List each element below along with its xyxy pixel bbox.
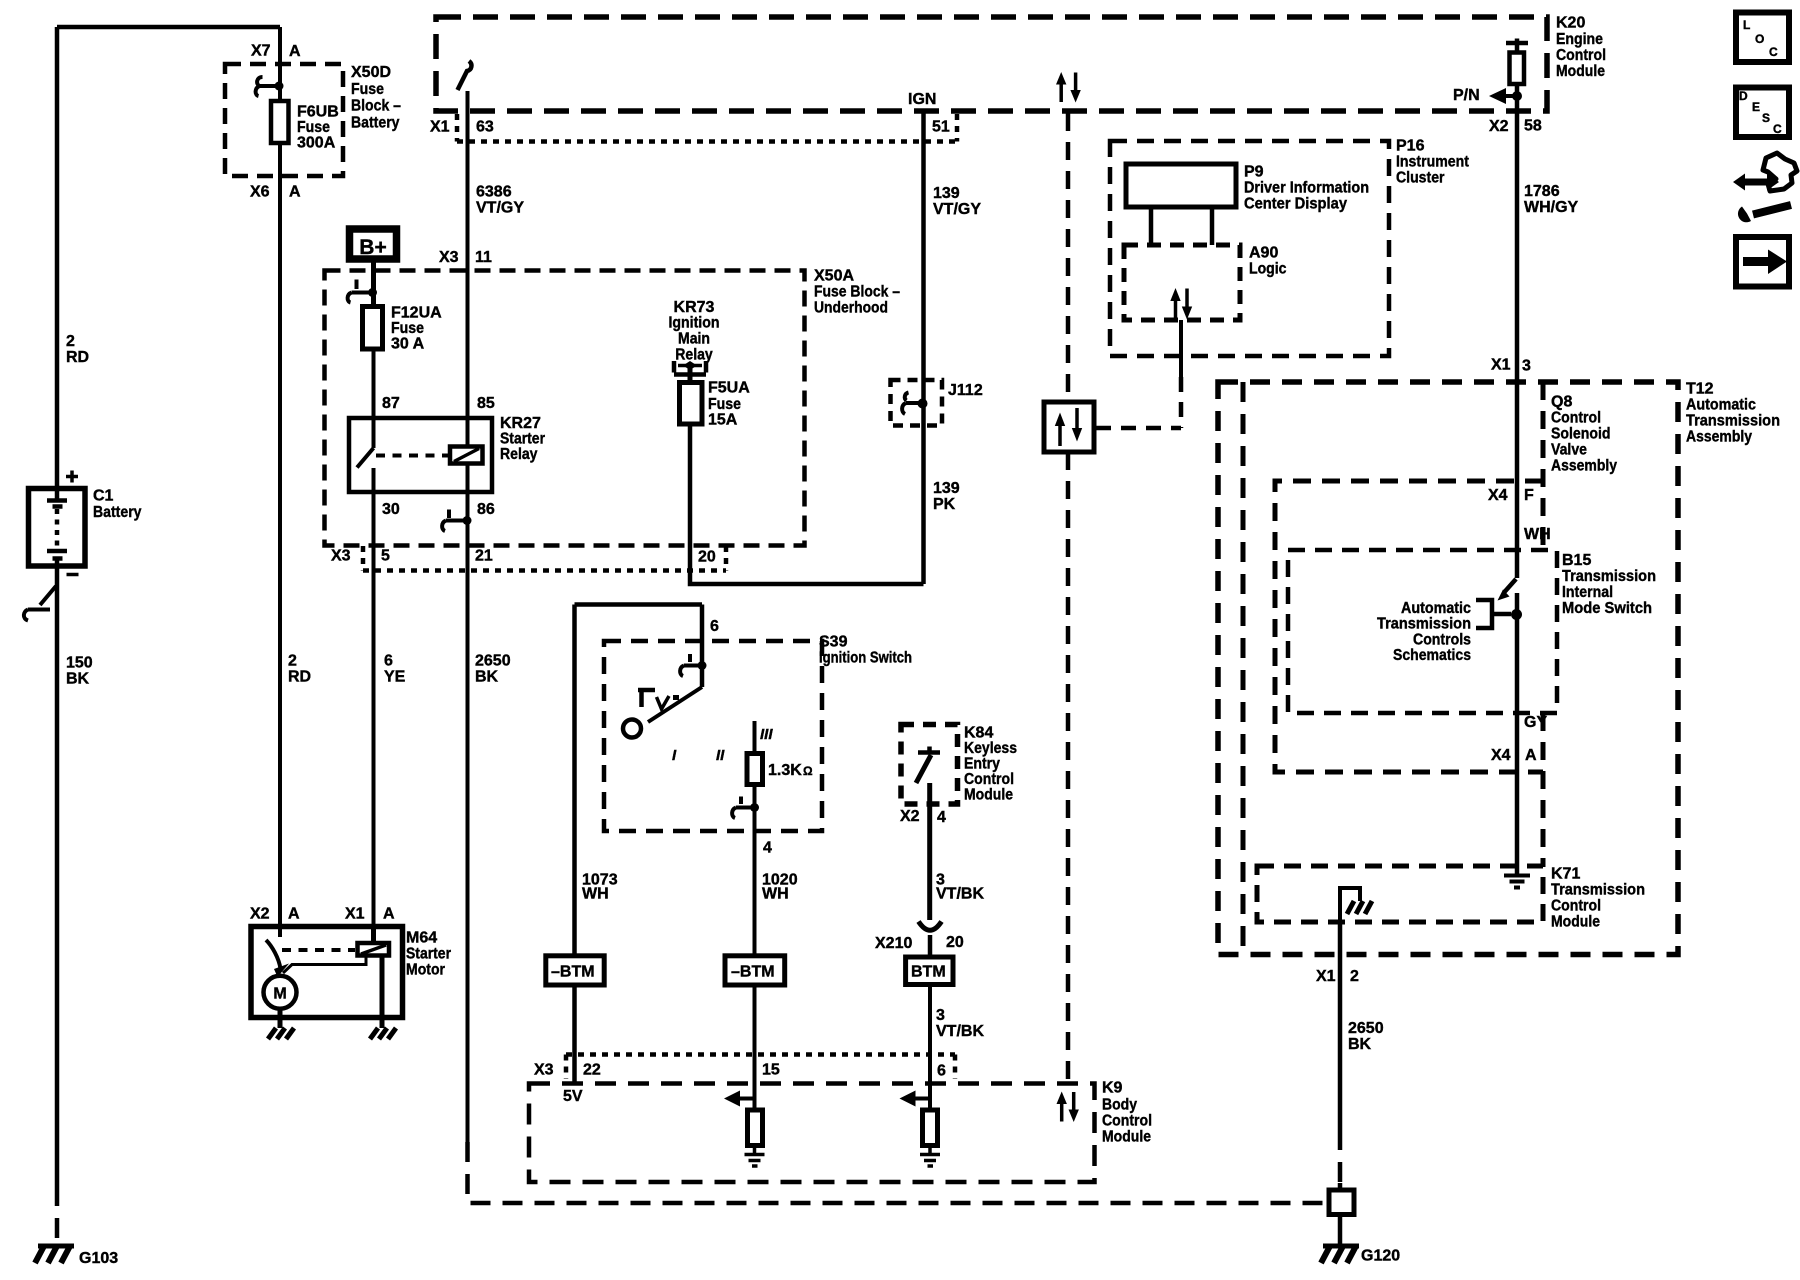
svg-text:M64: M64 [406,930,437,947]
svg-text:3: 3 [1522,358,1531,375]
label 3 VT/BK (lower) [936,1007,984,1040]
fuse block X50A dashed box [325,271,805,546]
svg-text:Engine: Engine [1556,31,1603,48]
svg-text:Q8: Q8 [1551,394,1572,411]
mode switch B15 wiper [1498,550,1518,601]
svg-text:Relay: Relay [500,446,538,463]
label 3 VT/BK [936,872,984,903]
label F6UB Fuse 300A [297,104,339,152]
starter M64 actuation dashed link [282,948,355,952]
label 139 PK [933,480,960,513]
wire ECM resistor to P/N node [1515,84,1520,111]
svg-text:Starter: Starter [406,946,451,963]
ground G103 [35,1246,118,1267]
svg-text:X7: X7 [251,43,271,60]
svg-text:KR73: KR73 [674,299,715,316]
svg-text:Fuse: Fuse [351,81,384,98]
label X50D Fuse Block - Battery [351,64,401,132]
svg-text:139: 139 [933,185,960,202]
label 2650 BK (TCM side) [1348,1020,1384,1053]
svg-text:Entry: Entry [964,756,1000,773]
solenoid valve assembly Q8 dashed edges [1275,382,1543,866]
svg-text:K20: K20 [1556,15,1585,32]
svg-text:Transmission: Transmission [1686,413,1780,430]
label X1 2 (TCM pins) [1316,968,1359,985]
label K71 Transmission Control Module [1551,866,1645,931]
label 6 YE [384,653,406,686]
svg-text:4: 4 [937,809,946,826]
svg-text:A: A [1525,747,1537,764]
svg-text:Valve: Valve [1551,442,1587,459]
connector hook at ignition switch pin 4 [732,797,759,819]
wire dashed to G103 [55,1186,60,1242]
wire ignition switch feed horizontal [575,602,703,607]
svg-text:Module: Module [1556,63,1605,80]
svg-text:S: S [1762,111,1770,125]
svg-text:150: 150 [66,655,93,672]
svg-text:Body: Body [1102,1097,1137,1114]
icon box arrow [1736,237,1789,287]
terminal box BTM (keyless circuit) [906,957,953,985]
label S39 Ignition Switch [819,634,912,667]
wire B+ stub [371,263,376,307]
ground symbol inside K71 [1504,876,1530,888]
svg-text:PK: PK [933,496,956,513]
serial data gateway box [1044,402,1094,452]
relay KR27 box [349,418,492,492]
svg-text:WH: WH [1524,526,1551,543]
svg-text:58: 58 [1524,118,1542,135]
svg-text:M: M [273,986,286,1003]
label K20 Engine Control Module [1556,15,1606,81]
wire A90 serial drop [1179,320,1183,377]
svg-text:GY: GY [1524,714,1547,731]
svg-text:4: 4 [763,840,772,857]
svg-text:Transmission: Transmission [1551,882,1645,899]
svg-text:Automatic: Automatic [1686,397,1756,414]
icon box DESC [1736,88,1789,138]
svg-text:T12: T12 [1686,381,1714,398]
label 6386 VT/GY [476,184,524,217]
svg-text:Assembly: Assembly [1686,429,1752,446]
wire ignition resistor branch [753,721,757,754]
label F12UA Fuse 30 A [391,305,442,353]
svg-text:6: 6 [710,618,719,635]
svg-text:X1: X1 [1316,968,1336,985]
svg-text:30 A: 30 A [391,336,425,353]
svg-text:Fuse Block –: Fuse Block – [814,284,900,301]
svg-text:Ignition Switch: Ignition Switch [819,650,912,667]
svg-text:Underhood: Underhood [814,300,888,317]
ignition switch position dash [673,695,679,700]
svg-text:X50A: X50A [814,268,854,285]
label X2 4 (K84 pins) [900,808,946,826]
svg-text:III: III [760,726,773,743]
svg-text:Instrument: Instrument [1396,154,1470,171]
ignition switch S39 contact v mark [657,696,670,709]
label 2650 BK [475,653,511,686]
wire top-left horizontal from battery feed to X7 [57,25,280,30]
terminal box -BTM (1073 circuit) [546,956,604,985]
svg-text:22: 22 [583,1062,601,1079]
inline connector X210 [919,922,942,931]
svg-text:C: C [1769,45,1778,59]
svg-text:X1: X1 [430,119,450,136]
wire keyless into BCM [928,985,932,1111]
label X1 3 (transmission connector) [1491,357,1531,375]
svg-text:3: 3 [936,1007,945,1024]
svg-text:X3: X3 [439,249,459,266]
label X210 20 [875,934,964,952]
ignition switch S39 fixed contact [638,690,655,707]
svg-text:X6: X6 [250,184,270,201]
svg-text:X50D: X50D [351,64,391,81]
svg-text:G103: G103 [79,1250,118,1267]
wire 139 from fuse F5UA down and right [690,424,924,584]
svg-text:63: 63 [476,119,494,136]
label 150 BK [66,655,93,688]
svg-text:O: O [1755,32,1764,46]
svg-text:Starter: Starter [500,431,545,448]
wire battery negative down [55,566,60,1186]
svg-text:X2: X2 [1489,118,1509,135]
label K84 Keyless Entry Control Module [964,725,1017,804]
svg-text:Internal: Internal [1562,584,1613,601]
starter M64 solenoid ground leg [380,956,385,1029]
svg-text:A: A [288,906,300,923]
svg-text:A: A [289,43,301,60]
svg-text:VT/BK: VT/BK [936,1023,984,1040]
resistor 1.3K in ignition switch [747,754,763,785]
svg-text:X4: X4 [1491,747,1511,764]
label P9 Driver Information Center Display [1244,164,1369,213]
svg-text:Assembly: Assembly [1551,458,1617,475]
label X4 A (mode switch pins) [1491,747,1537,764]
svg-text:139: 139 [933,480,960,497]
mode switch B15 dashed box [1288,550,1557,713]
svg-text:BK: BK [66,671,90,688]
svg-text:X2: X2 [250,906,270,923]
wire 3 VT/BK from K84 [927,783,932,920]
serial arrows at A90 [1170,288,1192,320]
svg-text:6: 6 [384,653,393,670]
svg-text:E: E [1752,100,1760,114]
label 139 VT/GY [933,185,981,218]
svg-text:2: 2 [288,653,297,670]
svg-text:X3: X3 [331,548,351,565]
svg-text:Logic: Logic [1249,261,1287,278]
label 1073 WH [582,872,618,903]
local ground link inside K71 [1340,888,1372,925]
svg-text:1.3K: 1.3K [768,762,802,779]
icon wrench and arrows [1733,153,1797,222]
relay KR27 coil [450,447,483,464]
svg-text:Controls: Controls [1413,632,1471,649]
transmission assembly T12 outer dashed box [1218,382,1678,955]
connector strip X1 dotted line [457,114,957,142]
connector hook inside K84 [916,747,940,784]
svg-text:WH: WH [582,886,609,903]
connector strip X3 labels X3 5 21 20 [331,548,716,566]
connector hook at F12UA feed [348,280,377,303]
svg-text:X2: X2 [900,808,920,825]
svg-text:Module: Module [1551,914,1600,931]
svg-text:6386: 6386 [476,184,512,201]
svg-text:K9: K9 [1102,1080,1123,1097]
starter M64 solenoid link to contact [283,956,366,974]
label X6 A [250,184,301,201]
fuse block X50D dashed box [225,64,343,176]
icon box LOC [1736,13,1789,63]
label X3 22 15 6 (BCM pins) [534,1062,946,1080]
wire X210 to BTM [928,935,933,957]
relay KR73 terminal bracket [674,361,706,375]
svg-text:BK: BK [1348,1036,1372,1053]
label X4 F (solenoid assembly pins) [1488,487,1534,504]
transmission control module K71 dashed box [1257,866,1543,922]
svg-text:Block –: Block – [351,98,401,115]
serial gateway arrows [1055,408,1082,446]
control solenoid valve assembly inner dashed edge [1241,382,1246,955]
svg-text:X4: X4 [1488,487,1508,504]
wire left vertical battery positive feed [55,27,60,489]
svg-text:RD: RD [66,349,89,366]
svg-text:K84: K84 [964,725,993,742]
svg-text:Center Display: Center Display [1244,196,1347,213]
svg-text:Fuse: Fuse [708,396,741,413]
node P/N junction dot [1512,91,1522,101]
svg-text:Solenoid: Solenoid [1551,426,1611,443]
display P9 box [1126,164,1236,207]
arrow P/N (off-page) [1453,87,1517,104]
svg-text:Schematics: Schematics [1393,647,1471,664]
ECM internal pull-up supply bar [1506,39,1528,53]
svg-text:Keyless: Keyless [964,740,1017,757]
starter motor M64 box [251,927,403,1018]
wire 1073 WH to BCM 5V [572,605,577,956]
battery plus sign [66,471,78,483]
svg-text:Transmission: Transmission [1377,616,1471,633]
wire 1020 into BCM [753,985,757,1110]
svg-text:A90: A90 [1249,245,1278,262]
ignition switch S39 pivot circle [623,720,641,738]
arrow (off-page) at BCM pin 15 [724,1091,755,1107]
svg-text:Control: Control [1551,898,1601,915]
resistor inside BCM (1020 circuit) [748,1110,763,1146]
fuse F12UA 30A [363,307,383,350]
svg-text:Battery: Battery [93,504,142,521]
chassis ground under motor [268,1028,294,1039]
wire 1786 WH/GY ECM to transmission [1515,111,1520,550]
label 2 RD (starter branch) [288,653,311,686]
svg-text:Control: Control [964,771,1014,788]
serial data dashed line lower [1066,452,1071,1084]
label K9 Body Control Module [1102,1080,1152,1146]
svg-text:X3: X3 [534,1062,554,1079]
svg-text:2650: 2650 [1348,1020,1384,1037]
wire KR73 to fuse F5UA [688,368,693,383]
svg-text:6: 6 [937,1063,946,1080]
chassis ground under solenoid [370,1028,396,1039]
svg-text:5: 5 [381,548,390,565]
svg-text:IGN: IGN [908,91,936,108]
svg-text:51: 51 [932,119,950,136]
svg-text:30: 30 [382,501,400,518]
wire motor to ground [278,1009,283,1028]
label M64 Starter Motor [406,930,451,979]
instrument cluster P16 dashed box [1110,141,1389,356]
wire 2 RD battery to starter [278,145,282,927]
fuse F6UB 300A [271,101,289,143]
splice J112 dashed box [891,380,943,426]
svg-text:Fuse: Fuse [391,320,424,337]
engine control module K20 dashed box [436,17,1547,111]
svg-text:Module: Module [964,787,1013,804]
label KR73 Ignition Main Relay [669,299,720,364]
ignition switch S39 lever [648,687,702,722]
svg-text:Control: Control [1556,47,1606,64]
label X2 58 (ECM pins) [1489,118,1542,136]
wires P9 to A90 [1151,207,1212,245]
connector hook on battery negative wire [24,586,56,621]
wire 2650 BK from TCM [1338,922,1343,1130]
svg-text:BTM: BTM [911,964,946,981]
svg-text:20: 20 [946,934,964,951]
svg-text:86: 86 [477,501,495,518]
svg-text:2: 2 [66,333,75,350]
connector strip X3 (BCM) dotted line [566,1055,955,1080]
svg-text:RD: RD [288,669,311,686]
label B15 Transmission Internal Mode Switch [1562,552,1656,617]
svg-text:L: L [1743,18,1750,32]
svg-text:J112: J112 [948,382,983,399]
ignition switch S39 dashed box [604,641,822,831]
serial data dashed line upper [1066,113,1071,402]
svg-text:Motor: Motor [406,962,445,979]
label T12 Automatic Transmission Assembly [1686,381,1780,446]
svg-text:I: I [672,747,677,764]
label X50A Fuse Block - Underhood [814,268,900,317]
svg-text:B15: B15 [1562,552,1591,569]
wire resistor to pin 4 [753,785,757,956]
wire relay coil 86 down to BCM ground run [466,464,470,1143]
svg-text:BK: BK [475,669,499,686]
svg-text:Battery: Battery [351,115,400,132]
keyless module K84 dashed box [901,725,958,805]
svg-text:Automatic: Automatic [1401,600,1471,617]
svg-text:WH: WH [762,886,789,903]
svg-text:X210: X210 [875,935,912,952]
svg-text:Module: Module [1102,1129,1151,1146]
terminal box -BTM (1020 circuit) [725,956,785,985]
svg-text:A: A [289,184,301,201]
svg-text:Ω: Ω [803,764,813,778]
svg-text:A: A [383,906,395,923]
svg-text:21: 21 [475,548,493,565]
relay KR27 actuation dashed link [376,454,449,458]
serial data arrows at ECM [1056,72,1081,103]
svg-text:–BTM: –BTM [551,964,595,981]
svg-text:15A: 15A [708,412,738,429]
svg-text:Ignition: Ignition [669,315,720,332]
svg-text:X1: X1 [1491,357,1511,374]
fuse F5UA 15A [680,383,703,425]
connector hook at ignition switch common [680,654,706,676]
connector hook at relay pin 86 [442,510,471,532]
serial data arrows into BCM [1057,1092,1079,1123]
reference bracket Automatic Transmission Controls Schematics [1476,600,1522,628]
starter M64 contact lever [266,927,289,978]
svg-text:K71: K71 [1551,866,1580,883]
svg-text:G120: G120 [1361,1248,1400,1265]
ground symbol inside BCM (keyless circuit) [920,1146,940,1167]
label X7 A [251,43,301,61]
svg-text:Mode Switch: Mode Switch [1562,600,1652,617]
svg-text:F6UB: F6UB [297,104,339,121]
wire X7 feed into fuse [278,27,282,100]
svg-text:F12UA: F12UA [391,305,442,322]
svg-text:WH/GY: WH/GY [1524,199,1579,216]
label 2 RD (left branch) [66,333,89,366]
battery minus sign [67,573,79,577]
label A90 Logic [1249,245,1287,278]
label X1 A (starter pins) [345,906,395,923]
svg-text:X1: X1 [345,906,365,923]
wire fuse to relay pin 87 [372,349,376,418]
svg-text:Transmission: Transmission [1562,568,1656,585]
wire dashed to G120 [1338,1130,1343,1183]
connector hook at X7 fuse feed [256,77,284,96]
label 1020 WH [762,872,798,903]
body control module K9 dashed box [529,1084,1095,1183]
logic module A90 dashed box [1124,245,1240,320]
svg-text:Cluster: Cluster [1396,170,1445,187]
svg-text:Control: Control [1551,410,1601,427]
label X2 A (starter pins) [250,906,300,923]
svg-text:YE: YE [384,669,406,686]
svg-text:85: 85 [477,395,495,412]
svg-text:C: C [1773,122,1782,136]
label F5UA Fuse 15A [708,380,750,429]
wire 139 through J112 to IGN junction [921,113,926,584]
arrow (off-page) at BCM pin 6 [900,1091,931,1107]
B+ terminal box [350,229,397,259]
label 1786 WH/GY [1524,183,1579,216]
label Automatic Transmission Controls Schematics [1377,600,1471,664]
label C1 Battery [93,488,142,522]
label X1 63 (fuse block connector) [430,119,494,136]
wire relay pin 30 to starter X1 [372,492,376,927]
starter M64 solenoid coil [358,927,390,956]
label P16 Instrument Cluster [1396,138,1470,187]
svg-text:B+: B+ [359,236,386,259]
svg-text:–BTM: –BTM [731,964,775,981]
svg-text:F5UA: F5UA [708,380,750,397]
wire A90 serial drop dashed to gateway [1096,377,1181,428]
svg-text:P16: P16 [1396,138,1425,155]
label Q8 Control Solenoid Valve Assembly [1551,394,1617,475]
svg-text:2650: 2650 [475,653,511,670]
wire 5V circuit into BCM [572,985,577,1084]
svg-text:11: 11 [475,249,492,266]
motor M circle [264,976,297,1009]
svg-text:300A: 300A [297,135,336,152]
label KR27 Starter Relay [500,415,545,463]
resistor inside ECM [1510,53,1525,85]
svg-text:2: 2 [1350,968,1359,985]
svg-text:Driver Information: Driver Information [1244,180,1369,197]
resistor inside BCM (keyless circuit) [923,1110,938,1146]
